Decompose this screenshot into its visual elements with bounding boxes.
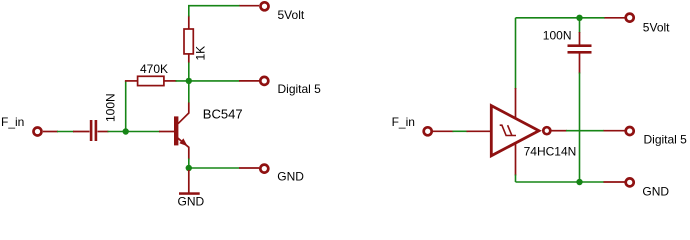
U1 output bubble xyxy=(543,127,550,134)
terminal F_in xyxy=(34,128,59,136)
svg-text:Digital 5: Digital 5 xyxy=(278,82,322,96)
wire VCC drop (vertical through gate) xyxy=(515,18,517,89)
junction collector node xyxy=(186,78,192,84)
svg-text:100N: 100N xyxy=(104,93,118,122)
gate U1 GND pin xyxy=(515,140,517,176)
transistor Q1 emitter arrow xyxy=(179,138,187,146)
terminal GND (right) xyxy=(604,178,634,186)
junction top rail / C2 xyxy=(576,15,582,21)
op-amp U1 74HC14N triangle xyxy=(491,106,539,156)
wire to bottom rail xyxy=(515,175,517,183)
junction bottom rail / C2 xyxy=(576,179,582,185)
gate U1 VCC pin xyxy=(515,88,517,120)
wire output net xyxy=(566,130,604,132)
wire emitter node xyxy=(189,159,240,169)
transistor Q1 base pin xyxy=(159,131,175,133)
wire base node up to R470K xyxy=(125,81,127,132)
terminal GND (left) xyxy=(239,165,268,173)
terminal Digital 5 (left) xyxy=(239,77,268,85)
resistor R1 470K pins xyxy=(125,80,177,82)
transistor Q1 emitter pin xyxy=(178,138,189,160)
svg-text:74HC14N: 74HC14N xyxy=(524,144,577,158)
wire F_in to gate xyxy=(453,130,468,132)
svg-text:F_in: F_in xyxy=(392,115,415,129)
svg-text:1K: 1K xyxy=(194,46,208,61)
wire 5V top rail xyxy=(516,17,606,19)
wire C1 to base node xyxy=(108,131,161,133)
wire junction to C2 xyxy=(579,18,581,33)
wire C2 to bottom rail xyxy=(579,73,581,183)
terminal Digital 5 (right) xyxy=(604,127,634,135)
terminal 5Volt (left) xyxy=(240,2,269,10)
U1 hysteresis symbol xyxy=(500,125,516,135)
gate U1 input pin xyxy=(467,130,491,132)
capacitor C1 plates xyxy=(90,120,97,141)
wire R470K to collector node xyxy=(176,80,240,82)
transistor Q1 base bar xyxy=(174,116,178,145)
svg-text:GND: GND xyxy=(642,185,669,199)
resistor R1 470K body xyxy=(138,76,164,85)
resistor R2 1K body xyxy=(184,29,193,54)
svg-text:F_in: F_in xyxy=(1,115,24,129)
svg-text:GND: GND xyxy=(178,195,205,209)
svg-text:5Volt: 5Volt xyxy=(643,21,670,35)
wire collector node vertical xyxy=(188,62,190,103)
wire bottom rail xyxy=(516,181,605,183)
svg-text:5Volt: 5Volt xyxy=(278,8,305,22)
wire F_in to C1 xyxy=(57,131,74,133)
ground symbol pin xyxy=(188,170,190,193)
ground symbol xyxy=(179,192,200,195)
capacitor C2 plates xyxy=(568,44,592,53)
wire 5V rail (left) xyxy=(188,6,240,17)
svg-text:GND: GND xyxy=(277,169,304,183)
gate U1 output pin xyxy=(551,130,567,132)
resistor R2 1K pins xyxy=(188,16,190,63)
svg-text:100N: 100N xyxy=(543,29,572,43)
junction emitter node xyxy=(186,165,192,171)
junction base node xyxy=(123,128,129,134)
terminal F_in (right) xyxy=(424,127,454,135)
capacitor C2 pins xyxy=(579,32,581,74)
svg-text:Digital 5: Digital 5 xyxy=(644,132,688,146)
svg-text:BC547: BC547 xyxy=(203,106,243,121)
terminal 5Volt (right) xyxy=(605,14,634,22)
transistor Q1 collector pin xyxy=(178,103,189,124)
svg-text:470K: 470K xyxy=(140,62,168,76)
capacitor C1 pins xyxy=(73,131,109,133)
